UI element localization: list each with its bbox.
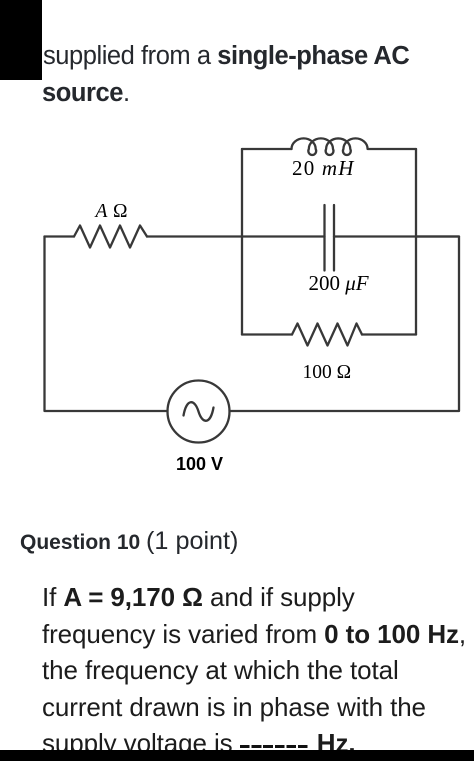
- svg-text:A: A: [94, 201, 108, 222]
- svg-text:20 mH: 20 mH: [292, 156, 355, 180]
- svg-text:200 μF: 200 μF: [309, 271, 369, 295]
- svg-text:100 V: 100 V: [176, 454, 223, 474]
- svg-text:100 Ω: 100 Ω: [303, 362, 352, 383]
- svg-text:Ω: Ω: [113, 201, 128, 222]
